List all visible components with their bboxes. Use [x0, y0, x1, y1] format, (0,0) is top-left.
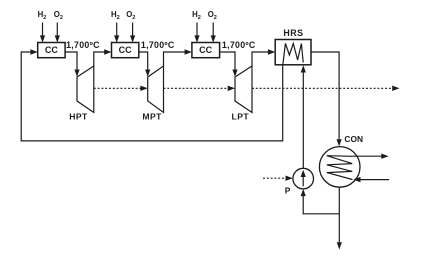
wire CC3 -> LPT inlet — [220, 52, 235, 70]
condenser CON circle — [319, 147, 360, 188]
turbine MPT — [148, 66, 164, 113]
svg-text:CC: CC — [45, 45, 58, 55]
H2 feed arrow CC3 — [196, 23, 198, 36]
O2 feed arrow CC2 — [132, 23, 134, 36]
wire HRS outlet -> condenser CON — [311, 52, 339, 139]
svg-text:CON: CON — [344, 134, 363, 144]
svg-text:HRS: HRS — [283, 28, 303, 38]
svg-text:1,700ºC: 1,700ºC — [141, 40, 175, 50]
svg-text:CC: CC — [199, 45, 212, 55]
wire junction -> water discharge — [338, 214, 340, 243]
wire CC2 -> MPT inlet — [139, 52, 148, 70]
svg-text:P: P — [285, 185, 291, 195]
CON internal coil — [327, 156, 353, 180]
wire LPT outlet -> HRS inlet — [252, 52, 268, 66]
shaft dashed LPT-generator out — [252, 87, 393, 89]
turbine HPT — [77, 66, 94, 113]
H2 feed arrow CC2 — [116, 23, 118, 36]
svg-text:1,700ºC: 1,700ºC — [66, 40, 100, 50]
heat recovery steam generator HRS box — [275, 40, 311, 65]
combustion chamber CC1 — [38, 43, 65, 58]
HRS internal zigzag coil — [283, 44, 303, 65]
combustion chamber CC2 — [112, 43, 139, 58]
svg-text:CC: CC — [119, 45, 132, 55]
turbine LPT — [235, 66, 252, 113]
wire: steam return line HRS bottom -> down -> left -> up -> CC1 inlet — [21, 52, 283, 141]
dashed pump drive line — [263, 177, 286, 179]
pump P circle — [293, 168, 314, 189]
H2 feed arrow CC1 — [42, 23, 44, 36]
wire pump -> HRS (feedwater) — [302, 72, 304, 168]
arrow into pump bottom — [301, 189, 306, 196]
O2 feed arrow CC3 — [212, 23, 214, 36]
wire HPT outlet -> CC2 inlet — [94, 52, 105, 66]
pump internal arrow — [302, 174, 304, 186]
wire CON bottom -> junction — [303, 187, 339, 214]
cooling water out arrow — [352, 155, 381, 157]
svg-text:MPT: MPT — [142, 112, 162, 122]
shaft dashed HPT-MPT — [94, 87, 142, 89]
shaft dashed MPT-LPT — [164, 87, 229, 89]
wire MPT outlet -> CC3 inlet — [164, 52, 185, 66]
arrow into CC1 left — [30, 49, 37, 54]
combustion chamber CC3 — [192, 43, 220, 58]
svg-text:1,700ºC: 1,700ºC — [222, 40, 256, 50]
svg-text:LPT: LPT — [232, 112, 250, 122]
cooling water in arrow — [360, 179, 389, 181]
O2 feed arrow CC1 — [56, 23, 58, 36]
wire CC1 -> HPT inlet — [65, 52, 77, 70]
svg-text:HPT: HPT — [69, 112, 88, 122]
